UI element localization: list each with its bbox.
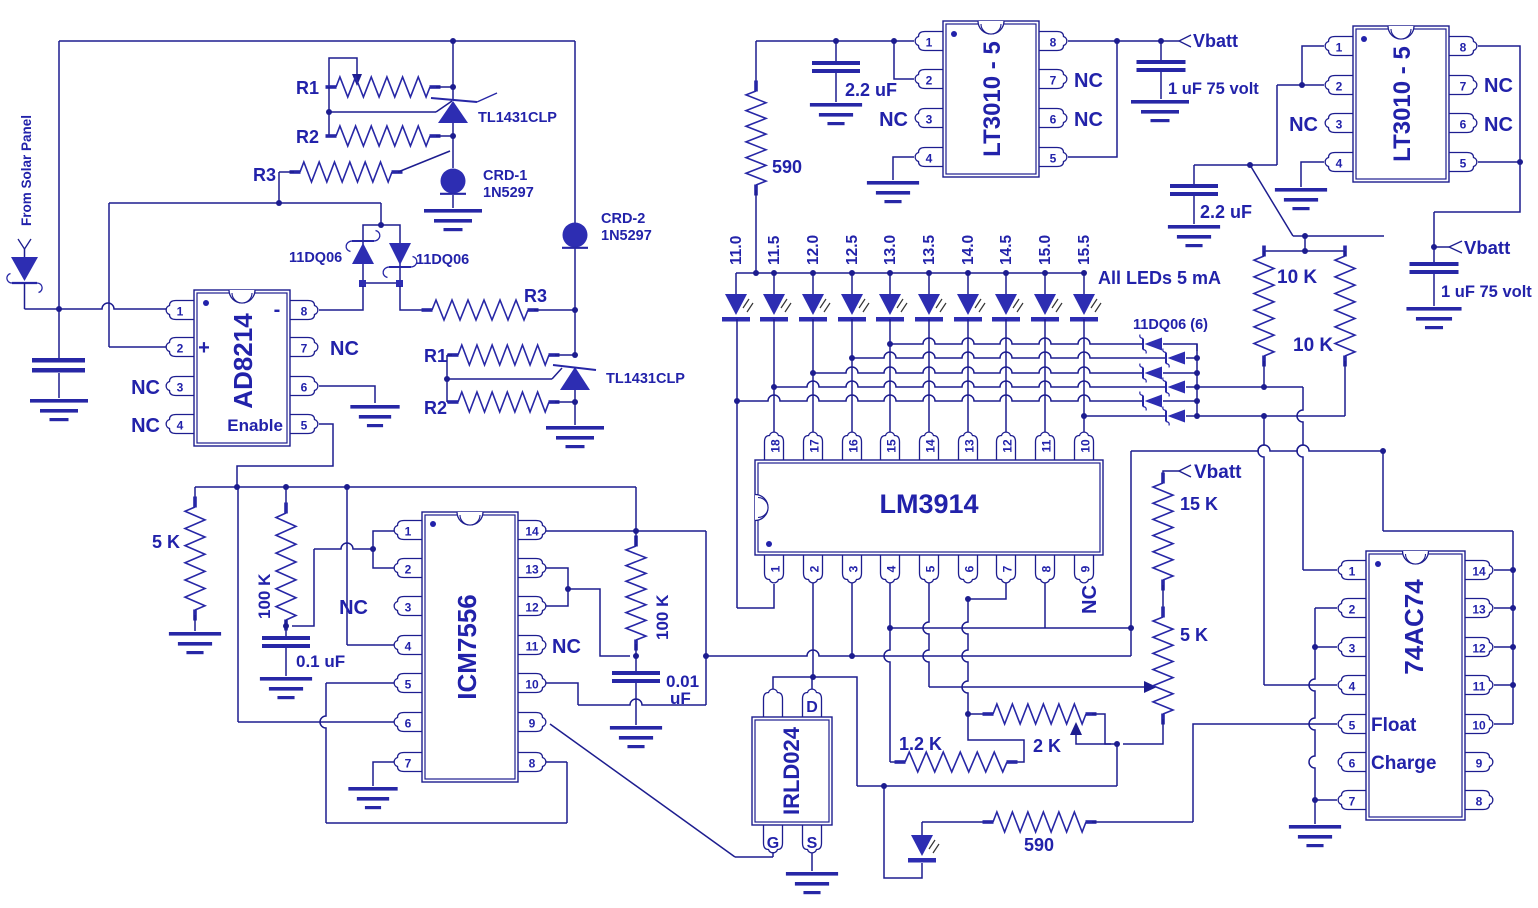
label NC pin3 AD8214	[131, 377, 160, 399]
svg-text:3: 3	[926, 113, 933, 127]
pin 7 AD8214	[290, 338, 318, 357]
svg-text:1 uF 75 volt: 1 uF 75 volt	[1168, 80, 1259, 98]
pin 8 74AC74	[1465, 791, 1493, 810]
diode D3 11DQ06 (down)	[383, 243, 417, 278]
wire ICM pins1-2 tie	[292, 531, 394, 626]
wire ICM pin4 net	[347, 487, 394, 645]
ground under TL1431-2	[546, 426, 604, 448]
wire diode bus out row	[1197, 384, 1303, 390]
wire 2K left stub	[968, 713, 985, 715]
svg-text:2: 2	[177, 342, 184, 356]
ground under 2.2uF-2	[1168, 225, 1220, 247]
wire d1 out	[1163, 344, 1197, 351]
wire 5K drop	[194, 487, 196, 502]
label All LEDs 5 mA	[1098, 268, 1221, 288]
wire IRLD source to ground	[811, 853, 813, 871]
wire diag battery sense	[1250, 165, 1293, 236]
svg-text:15 K: 15 K	[1180, 494, 1218, 514]
resistor R 10K first	[1254, 246, 1274, 367]
label NC LM3914 pin9	[1079, 585, 1101, 614]
svg-text:Enable: Enable	[227, 416, 283, 435]
label 11DQ06 right	[416, 252, 469, 268]
node 100K right bottom	[633, 653, 639, 659]
svg-text:NC: NC	[1079, 585, 1101, 614]
label NC ICM pin11	[552, 636, 581, 658]
svg-text:4: 4	[1349, 680, 1356, 694]
diode D16 11DQ06 row3	[1140, 364, 1162, 383]
label 10K first	[1277, 267, 1317, 288]
label LT3010-5 first	[979, 41, 1006, 157]
wire 74AC74 right bus	[1494, 531, 1516, 724]
label TL1431CLP lower	[606, 371, 685, 387]
pin 13 ICM7556	[518, 559, 546, 578]
svg-text:5: 5	[405, 678, 412, 692]
LED D13 15.5	[1070, 273, 1101, 322]
pin 13 74AC74	[1465, 599, 1493, 618]
LED driver U5 LM3914 body	[755, 460, 1103, 555]
wire 5K bottom	[1123, 719, 1163, 744]
svg-text:12: 12	[1001, 439, 1015, 453]
label LED voltage 12.0	[805, 235, 822, 265]
svg-text:8: 8	[1040, 565, 1054, 572]
pin source S	[803, 825, 822, 853]
pin 12 LM3914	[997, 432, 1016, 460]
diode D17 11DQ06 row4	[1163, 378, 1185, 397]
svg-text:5 K: 5 K	[1180, 625, 1208, 645]
pin 6 LT3010-2	[1449, 114, 1477, 133]
ground under 0.1uF	[260, 677, 312, 699]
label 100K right	[653, 594, 672, 640]
svg-text:4: 4	[405, 640, 412, 654]
LED D8 13.0	[876, 273, 907, 322]
label LED voltage 13.5	[921, 234, 938, 265]
svg-text:3: 3	[847, 565, 861, 572]
label LED voltage 11.0	[728, 236, 745, 265]
pin 8 LT3010-2	[1449, 37, 1477, 56]
ground under 1uF-1	[1131, 100, 1189, 122]
pot arrow onto R1	[352, 74, 362, 86]
svg-text:3: 3	[405, 601, 412, 615]
pin 15 LM3914	[881, 432, 900, 460]
node solar bus	[56, 306, 62, 312]
pin 1 AD8214	[166, 301, 194, 320]
label 11DQ06 (6)	[1133, 317, 1208, 333]
pin 6 LT3010-1	[1039, 109, 1067, 128]
wire row687 wiper	[929, 686, 1144, 688]
wire ICM pin14 down to out row	[705, 531, 707, 656]
svg-text:11DQ06: 11DQ06	[416, 252, 469, 268]
svg-text:11DQ06 (6): 11DQ06 (6)	[1133, 317, 1208, 333]
label LED voltage 11.5	[766, 235, 783, 265]
wire AD8214 pin5 enable net	[237, 424, 333, 487]
svg-text:7: 7	[1349, 795, 1356, 809]
svg-text:8: 8	[529, 757, 536, 771]
svg-text:8: 8	[1460, 41, 1467, 55]
wire col 1264 down to 74AC74 pin4	[1258, 416, 1337, 685]
wire 11DQ06 box	[363, 225, 400, 283]
vbatt arrow third	[1179, 465, 1191, 477]
resistor R3 upper	[290, 162, 403, 182]
svg-text:2: 2	[808, 565, 822, 572]
wire 2.2uF-2 gnd	[1193, 196, 1195, 224]
wire LED10 column	[1081, 319, 1087, 432]
pin 5 LT3010-2	[1449, 153, 1477, 172]
wire TL1431-1 column	[452, 41, 454, 168]
pin 10 ICM7556	[518, 674, 546, 693]
wire 1uF-2 gnd	[1433, 274, 1435, 306]
label plus pin2	[198, 337, 210, 359]
pin 1 LM3914	[765, 555, 784, 583]
svg-text:NC: NC	[1074, 70, 1103, 92]
label G	[767, 835, 779, 852]
wire LED7 column	[967, 319, 969, 432]
label ICM7556	[452, 594, 482, 700]
flip-flop U6 74AC74 body	[1366, 551, 1465, 820]
svg-text:10: 10	[1079, 439, 1093, 453]
regulator U4 LT3010-5 second body	[1353, 26, 1449, 182]
pin 1 ICM7556	[394, 521, 422, 540]
svg-text:NC: NC	[1484, 75, 1513, 97]
capacitor C 1uF 75v first	[1137, 60, 1186, 72]
svg-text:3: 3	[177, 381, 184, 395]
pin 5 74AC74	[1338, 715, 1366, 734]
svg-text:15.5: 15.5	[1076, 234, 1093, 265]
label S	[807, 835, 818, 852]
diode D19 11DQ06 row6	[1163, 407, 1185, 426]
svg-text:5 K: 5 K	[152, 532, 180, 552]
wire LED8 column	[1005, 319, 1007, 432]
svg-text:10: 10	[1472, 719, 1486, 733]
node R3 upper tap	[276, 200, 282, 206]
svg-text:R2: R2	[296, 127, 319, 147]
wire 590 to LED bus	[755, 190, 757, 273]
label 2.2 uF second	[1200, 202, 1252, 222]
label 1uF 75v first	[1168, 80, 1259, 98]
pin 7 LT3010-2	[1449, 76, 1477, 95]
label Vbatt second	[1464, 237, 1510, 258]
wire 0.01uF to ground	[635, 683, 637, 725]
svg-text:Charge: Charge	[1371, 753, 1436, 774]
pin 5 LT3010-1	[1039, 148, 1067, 167]
svg-text:12: 12	[525, 601, 539, 615]
pin 14 LM3914	[920, 432, 939, 460]
node junction top rail at TL1431 column	[450, 38, 456, 44]
pin 1 74AC74	[1338, 561, 1366, 580]
wire solar arrow to diode	[24, 249, 26, 257]
resistor R 5K pot	[1153, 607, 1173, 725]
wire LED5 column	[887, 319, 893, 432]
svg-text:10 K: 10 K	[1293, 335, 1333, 356]
svg-text:R2: R2	[424, 398, 447, 418]
svg-text:6: 6	[1349, 757, 1356, 771]
wire LT3010-2 pin2 net	[1194, 85, 1324, 168]
wire R1 lower right	[555, 352, 578, 358]
label LT3010-5 second	[1389, 46, 1416, 162]
wire 100K bottom to cap	[285, 620, 287, 636]
label NC LT1 pin6	[1074, 109, 1103, 131]
svg-text:1: 1	[769, 565, 783, 572]
pin 11 LM3914	[1036, 432, 1055, 460]
LED D7 12.5	[838, 273, 869, 322]
label LED voltage 14.0	[960, 235, 977, 265]
svg-text:NC: NC	[1484, 114, 1513, 136]
svg-text:All LEDs 5 mA: All LEDs 5 mA	[1098, 268, 1221, 288]
wire 1.2K left link	[890, 761, 897, 763]
pin 1 LT3010-1	[915, 32, 943, 51]
label From Solar Panel	[19, 115, 34, 226]
pin 5 LM3914	[920, 555, 939, 583]
node 100K left bottom	[283, 623, 289, 629]
pin 1 LT3010-2	[1325, 37, 1353, 56]
svg-text:2: 2	[405, 563, 412, 577]
LED D10 14.0	[954, 273, 985, 322]
node 11DQ06 box top	[378, 222, 384, 228]
pin drain bubble left	[764, 689, 783, 717]
ground under 2.2uF-1	[810, 103, 862, 125]
label 74AC74	[1399, 579, 1429, 675]
wire LT3010-2 pin4 gnd	[1301, 162, 1324, 187]
svg-text:NC: NC	[1289, 114, 1318, 136]
wire top rail from solar input to CRD-2 column	[59, 41, 575, 309]
wire drain to LED driver row	[813, 677, 857, 786]
wire 74AC74 pins2-3-7 bus	[1309, 608, 1337, 824]
resistor R 15K	[1153, 473, 1173, 591]
LED D24 charge indicator	[908, 822, 939, 863]
svg-text:14: 14	[924, 439, 938, 453]
diode D1 solar input (schottky)	[7, 257, 42, 293]
wire 1383 junction	[1380, 448, 1513, 531]
svg-text:8: 8	[1050, 36, 1057, 50]
resistor R 5K	[185, 497, 205, 621]
solar input arrow	[18, 239, 31, 249]
wire d2 out	[1186, 355, 1200, 361]
pin 14 ICM7556	[518, 521, 546, 540]
wire ref line TL1431-2	[447, 368, 562, 379]
resistor R 1.2K	[895, 752, 1018, 772]
svg-text:100 K: 100 K	[255, 573, 274, 619]
wire 5K to ground	[194, 615, 196, 631]
pin 6 ICM7556	[394, 713, 422, 732]
ground under pin6	[350, 405, 399, 427]
svg-text:13: 13	[1472, 603, 1486, 617]
svg-text:G: G	[767, 835, 779, 852]
svg-text:Vbatt: Vbatt	[1193, 31, 1238, 51]
label LED voltage 13.0	[882, 235, 899, 265]
wire d5 out	[1163, 398, 1200, 404]
wire LT3010-1 pin4 gnd	[893, 157, 914, 180]
svg-text:13: 13	[525, 563, 539, 577]
svg-text:4: 4	[1336, 157, 1343, 171]
label LED voltage 14.5	[998, 234, 1015, 265]
svg-text:15.0: 15.0	[1037, 235, 1054, 265]
svg-text:7: 7	[1050, 74, 1057, 88]
svg-text:18: 18	[769, 439, 783, 453]
node 590 at LED bus	[753, 270, 759, 276]
svg-text:LM3914: LM3914	[879, 489, 978, 519]
wire ICM pin14 rail	[546, 528, 706, 534]
svg-text:TL1431CLP: TL1431CLP	[606, 371, 685, 387]
arrow into 5K	[1144, 681, 1157, 693]
label 590 upper	[772, 157, 802, 177]
pin 9 74AC74	[1465, 753, 1493, 772]
pin 4 AD8214	[166, 415, 194, 434]
pin 7 LM3914	[997, 555, 1016, 583]
pin 8 ICM7556	[518, 753, 546, 772]
pin 4 74AC74	[1338, 676, 1366, 695]
svg-text:6: 6	[1050, 113, 1057, 127]
wire LM3914 pin3 to out row	[851, 583, 853, 656]
wire d6 out	[1186, 413, 1200, 419]
capacitor C 2.2uF first	[812, 61, 860, 73]
svg-text:D: D	[806, 699, 818, 716]
svg-text:16: 16	[847, 439, 861, 453]
wire mesh row3	[813, 367, 1143, 373]
label 10K second	[1293, 335, 1333, 356]
pin 2 AD8214	[166, 338, 194, 357]
capacitor C 0.01uF	[612, 671, 660, 683]
pin 3 LT3010-1	[915, 109, 943, 128]
wire LED1 column to pin1	[734, 319, 774, 608]
current reg diode CRD-2	[562, 223, 588, 248]
LED D5 11.5	[760, 273, 791, 322]
label 15K	[1180, 494, 1218, 514]
label R3 lower	[524, 286, 547, 306]
svg-text:Vbatt: Vbatt	[1464, 237, 1510, 258]
svg-text:13.0: 13.0	[882, 235, 899, 265]
svg-text:2.2 uF: 2.2 uF	[845, 80, 897, 100]
wire 10K bracket	[1264, 236, 1345, 254]
wire ICM pin10 net	[546, 656, 706, 705]
pin drain bubble D	[803, 689, 822, 717]
svg-text:7: 7	[301, 342, 308, 356]
node 2K-5K junction	[1114, 741, 1120, 747]
pin 3 74AC74	[1338, 638, 1366, 657]
svg-text:1: 1	[1349, 565, 1356, 579]
svg-text:13.5: 13.5	[921, 234, 938, 265]
label 1.2K	[899, 734, 942, 754]
svg-text:2.2 uF: 2.2 uF	[1200, 202, 1252, 222]
diode D18 11DQ06 row5	[1140, 392, 1162, 411]
vbatt arrow first	[1179, 35, 1191, 47]
vbatt arrow second	[1449, 241, 1462, 253]
svg-text:100 K: 100 K	[653, 594, 672, 640]
svg-text:11: 11	[1040, 439, 1054, 452]
svg-text:2: 2	[926, 74, 933, 88]
wire d3 out	[1163, 370, 1200, 376]
svg-text:LT3010 - 5: LT3010 - 5	[1389, 46, 1416, 162]
svg-text:5: 5	[1050, 152, 1057, 166]
svg-text:6: 6	[301, 381, 308, 395]
pin 9 LM3914	[1075, 555, 1094, 583]
svg-text:11: 11	[526, 640, 539, 654]
wire mesh row2	[852, 352, 1166, 358]
svg-text:1N5297: 1N5297	[483, 185, 534, 201]
svg-text:9: 9	[1079, 565, 1093, 572]
ground under LT3010-2 pin4	[1275, 188, 1327, 210]
op-amp U1 AD8214 body	[194, 290, 290, 446]
pin gate G	[764, 825, 783, 853]
wire 2.2uF-1 stub	[835, 41, 837, 61]
svg-text:12.5: 12.5	[844, 234, 861, 265]
pin 3 ICM7556	[394, 597, 422, 616]
wire R1 right to column	[436, 84, 456, 90]
svg-text:NC: NC	[131, 415, 160, 437]
svg-text:S: S	[807, 835, 818, 852]
wire diode to AD8214 pin1 row	[25, 283, 167, 309]
wire 1.2K right link	[968, 714, 1024, 762]
wire LED6 column	[928, 319, 930, 432]
resistor R 100K left	[276, 503, 296, 631]
svg-text:4: 4	[177, 419, 184, 433]
wire row628	[890, 627, 1131, 629]
wire 100K right bottom	[635, 531, 637, 671]
label LM3914	[879, 489, 978, 519]
svg-text:8: 8	[301, 305, 308, 319]
svg-text:CRD-1: CRD-1	[483, 168, 527, 184]
label Vbatt third	[1194, 462, 1242, 483]
pin 3 LM3914	[843, 555, 862, 583]
wire 11DQ06 left to AD8214 pin8	[319, 286, 363, 310]
pin 2 LT3010-1	[915, 70, 943, 89]
wire pin6 column	[962, 599, 968, 714]
wire row451	[1131, 445, 1383, 451]
label LED voltage 15.5	[1076, 234, 1093, 265]
svg-text:12.0: 12.0	[805, 235, 822, 265]
resistor R3 lower	[422, 300, 539, 320]
svg-text:5: 5	[1460, 157, 1467, 171]
label CRD-1	[483, 168, 534, 201]
svg-text:1N5297: 1N5297	[601, 228, 652, 244]
wire ICM pin7 to ground	[373, 762, 394, 786]
label NC LT2 pin7	[1484, 75, 1513, 97]
label NC LT1 pin7	[1074, 70, 1103, 92]
svg-text:6: 6	[405, 717, 412, 731]
wire R2 lower right	[555, 399, 578, 405]
svg-text:10: 10	[525, 678, 539, 692]
wire mesh row4	[774, 381, 1166, 387]
svg-text:9: 9	[1476, 757, 1483, 771]
resistor R 10K second	[1335, 246, 1355, 367]
svg-text:1: 1	[405, 525, 412, 539]
diode D15 11DQ06 row2	[1163, 349, 1185, 368]
pin 6 74AC74	[1338, 753, 1366, 772]
svg-text:NC: NC	[879, 109, 908, 131]
label Charge	[1371, 753, 1436, 774]
label NC ICM pin3	[339, 597, 368, 619]
svg-text:-: -	[274, 299, 281, 321]
svg-text:15: 15	[885, 439, 899, 453]
timer U2 ICM7556 body	[422, 512, 518, 782]
wire ICM pins2-3 tie	[546, 568, 630, 656]
svg-text:ICM7556: ICM7556	[452, 594, 482, 700]
svg-text:2: 2	[1336, 80, 1343, 94]
label NC pin7 AD8214	[330, 338, 359, 360]
label 2.2 uF first	[845, 80, 897, 100]
node enable-rail	[234, 484, 240, 490]
wire ref line to TL1431-1	[329, 101, 452, 112]
wire col 1131 up	[1128, 451, 1134, 656]
pin 7 ICM7556	[394, 753, 422, 772]
wire 1uF-1 stub	[1160, 41, 1162, 60]
ground under CRD-1	[424, 209, 482, 231]
wire R3 upper right diagonal	[398, 151, 450, 172]
node ICM out row	[703, 653, 709, 659]
svg-text:R1: R1	[296, 78, 319, 98]
wire diode bus	[1196, 344, 1198, 416]
diode D2 11DQ06 (up)	[346, 231, 380, 265]
wire supply rail 5K/100K	[195, 486, 636, 488]
svg-text:1.2 K: 1.2 K	[899, 734, 942, 754]
